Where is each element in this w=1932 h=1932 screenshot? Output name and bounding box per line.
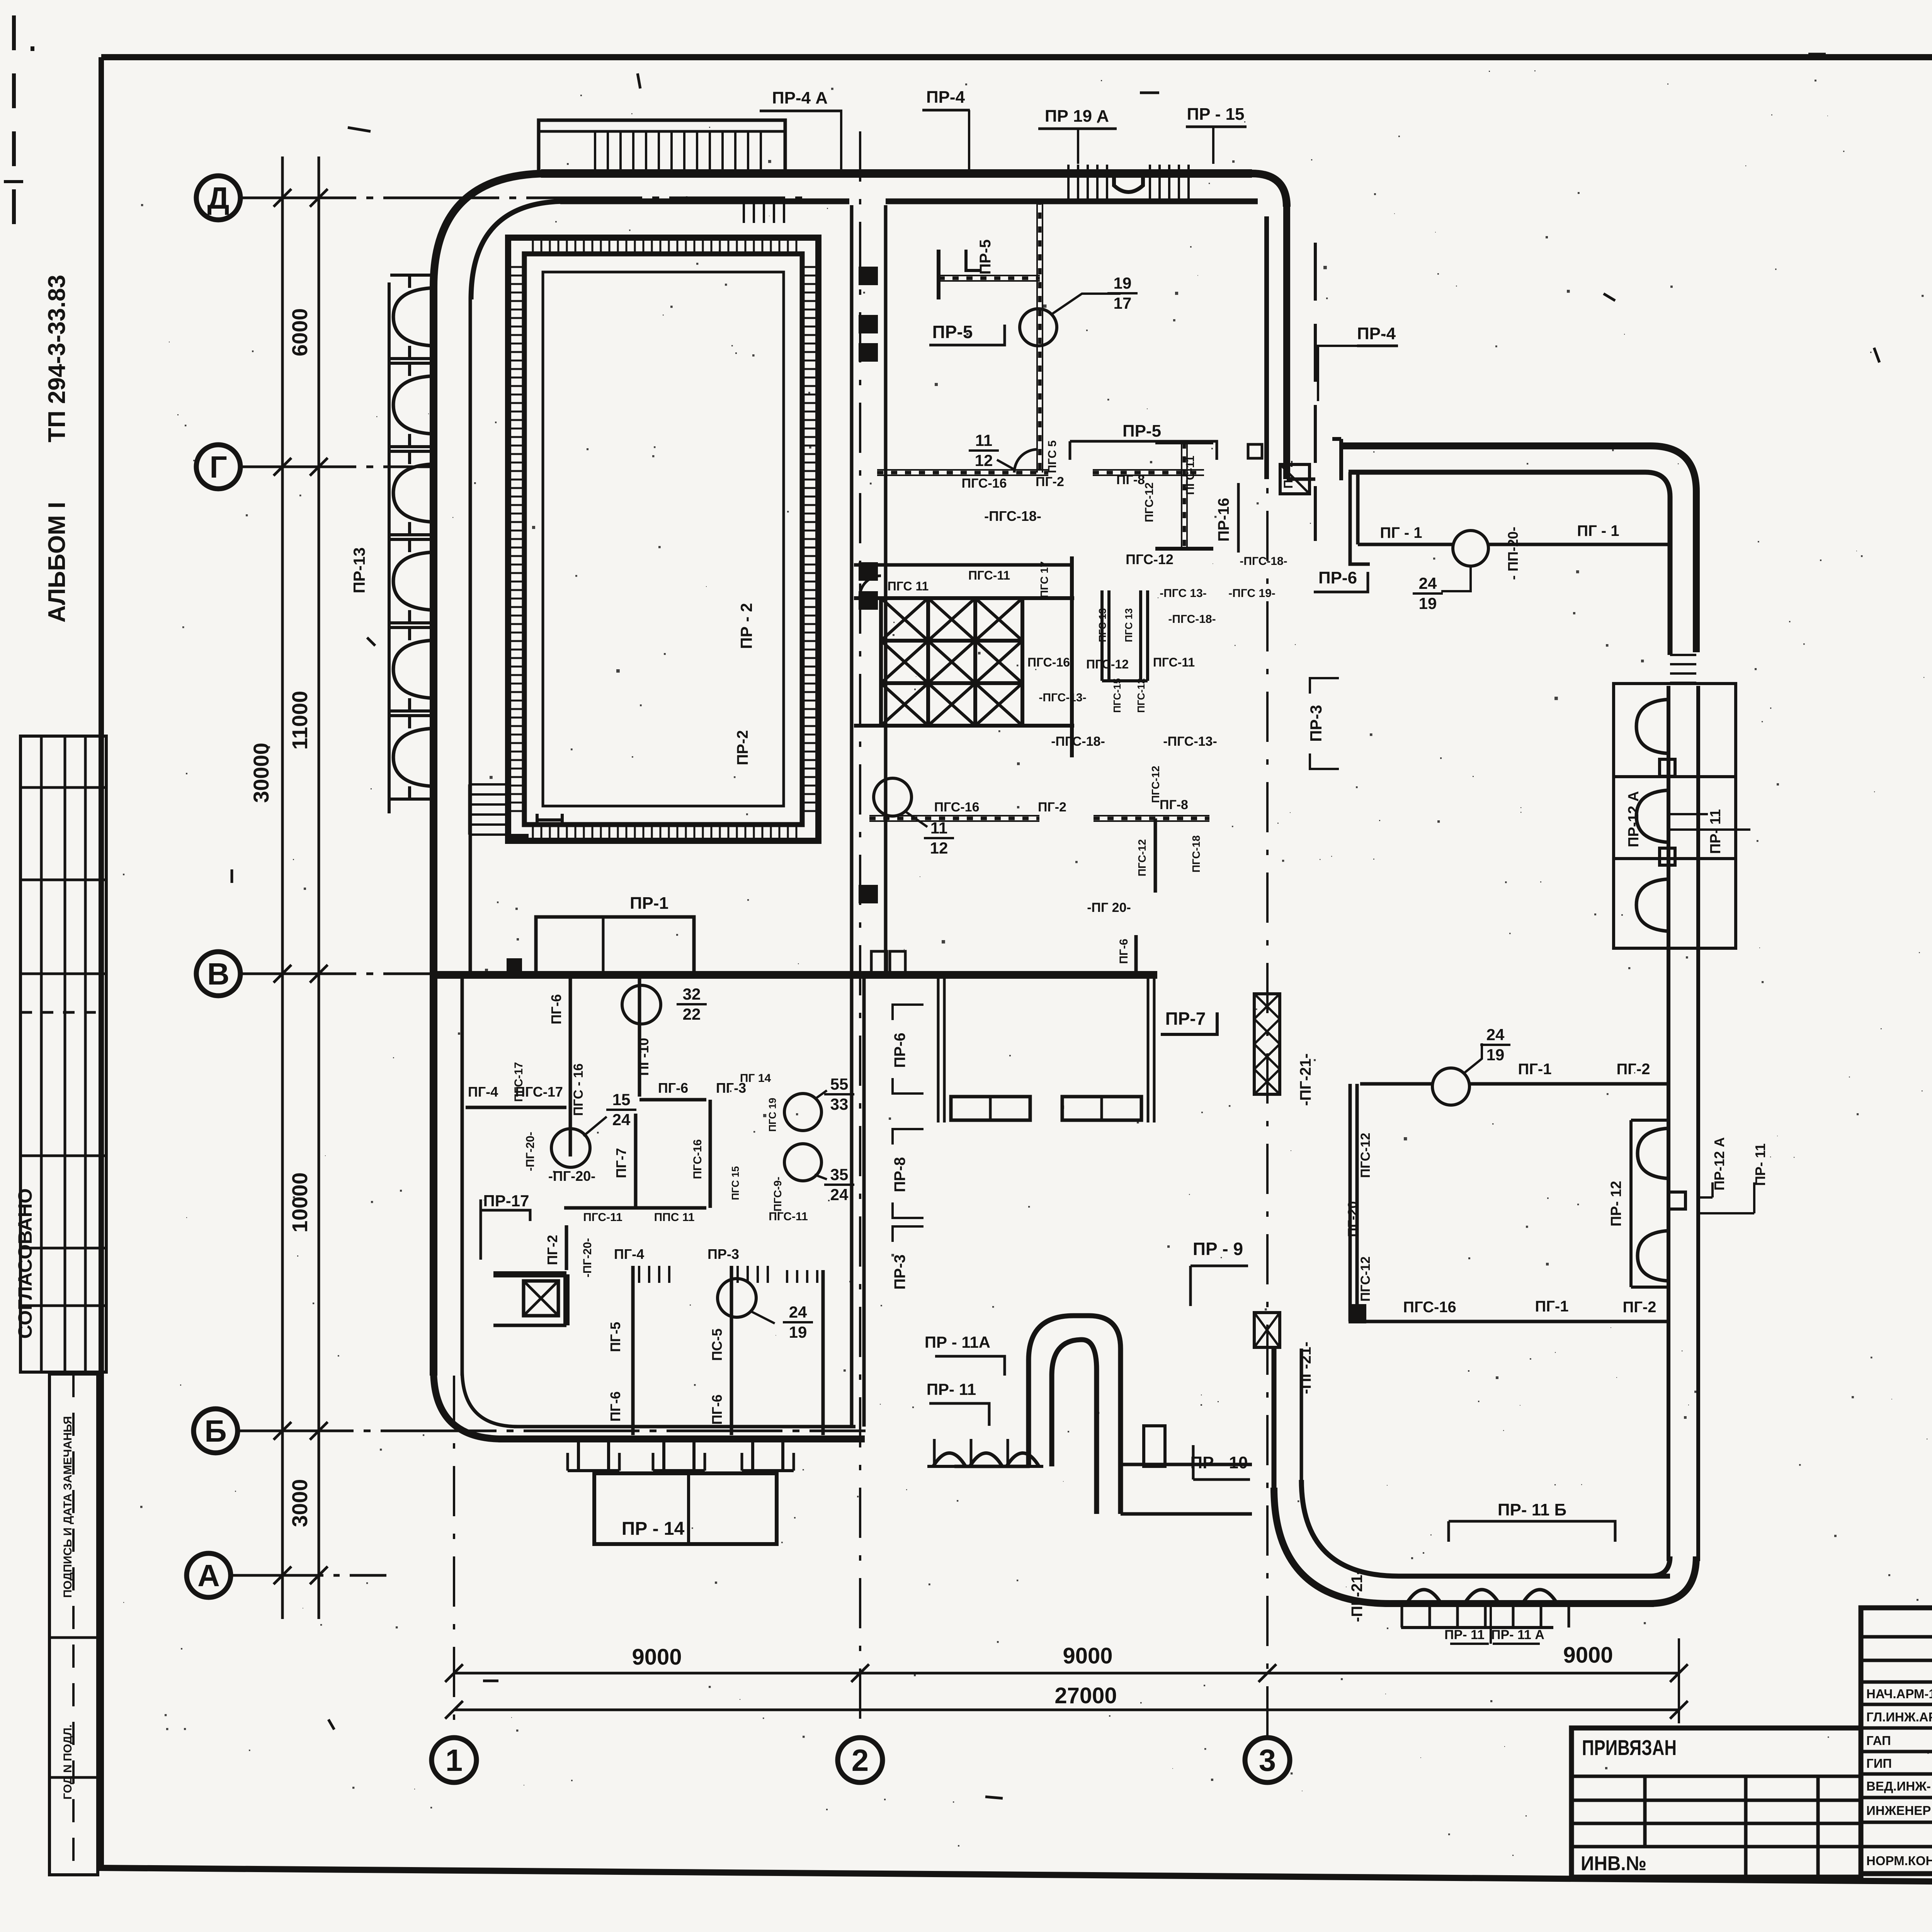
svg-text:ПГС-11: ПГС-11 (583, 1211, 622, 1224)
partition PG-1 upper with circle (1358, 543, 1453, 546)
svg-text:3: 3 (1259, 1743, 1276, 1777)
svg-text:НАЧ.АРМ-1: НАЧ.АРМ-1 (1866, 1687, 1932, 1701)
grid bubble axis Г (196, 445, 240, 489)
partition PG-1/PG-2 mid with circle (1360, 1082, 1434, 1086)
door swing arc (1014, 449, 1037, 473)
svg-text:ПГ-10: ПГ-10 (636, 1038, 651, 1076)
svg-text:ПР- 11: ПР- 11 (1708, 809, 1724, 854)
svg-text:ПР-6: ПР-6 (1318, 568, 1357, 587)
ramp duct outer (1029, 1316, 1121, 1514)
axis line B (238, 1430, 866, 1432)
svg-text:ПГС 17: ПГС 17 (1038, 561, 1050, 598)
svg-text:ПР-4 А: ПР-4 А (772, 88, 828, 107)
svg-text:ПГС-11: ПГС-11 (1153, 655, 1195, 669)
svg-text:ПГ - 1: ПГ - 1 (1577, 522, 1619, 539)
svg-text:6000: 6000 (287, 308, 312, 357)
svg-text:ПГС 13: ПГС 13 (1097, 608, 1108, 642)
partition horizontal PG-6/PG-3 (639, 1098, 706, 1102)
grid bubble axis В (196, 952, 240, 996)
svg-text:ПР 19 А: ПР 19 А (1045, 107, 1109, 126)
left paper edge dashes (12, 15, 16, 247)
niche scallop 4 (1638, 1231, 1668, 1281)
svg-text:30000: 30000 (249, 743, 273, 803)
partition PGS-16 vertical lower (709, 1100, 712, 1208)
svg-text:ПГС 13: ПГС 13 (1123, 608, 1134, 642)
partition y2118 (869, 815, 1039, 816)
svg-text:ПР- 11: ПР- 11 (1444, 1628, 1485, 1642)
PR-14 porch box (594, 1473, 777, 1544)
svg-text:22: 22 (683, 1005, 701, 1023)
svg-text:ПГС-12: ПГС-12 (1086, 657, 1129, 671)
bottom-left outer corner arc (434, 1370, 502, 1439)
svg-text:НОРМ.КОНТР: НОРМ.КОНТР (1866, 1854, 1932, 1868)
svg-text:-ПГС-18-: -ПГС-18- (984, 508, 1041, 524)
partition horizontal y1223 left (877, 469, 1048, 471)
marker circle PG-20 (551, 1129, 590, 1167)
leader 15/24 (583, 1117, 607, 1136)
crosshatched pier lower (1254, 1313, 1280, 1347)
svg-text:ПГ-4: ПГ-4 (468, 1084, 498, 1100)
svg-text:11000: 11000 (287, 691, 312, 750)
svg-text:ПР- 11: ПР- 11 (927, 1380, 976, 1398)
svg-text:ПГС-16: ПГС-16 (1027, 655, 1070, 669)
svg-text:ПРИВЯЗАН: ПРИВЯЗАН (1582, 1735, 1677, 1760)
PR-5 bracket over partition (1070, 441, 1217, 460)
corridor left wall of right building (1272, 1349, 1277, 1492)
outer wall left (west facade) (430, 287, 437, 1376)
axis line V (240, 973, 1157, 975)
sheet frame bottom border (99, 1868, 1932, 1887)
svg-text:9000: 9000 (1563, 1643, 1613, 1668)
right building left wall upper (1349, 472, 1352, 544)
bottom-left big corner inner (1301, 1480, 1399, 1576)
third comb (786, 1270, 788, 1283)
svg-text:19: 19 (1114, 274, 1132, 292)
svg-text:12: 12 (975, 451, 993, 469)
PR-1 porch box above V wall (536, 917, 694, 975)
partition PG-2 (565, 1225, 568, 1270)
svg-text:ПГ-6: ПГ-6 (658, 1080, 688, 1096)
axis line G (240, 466, 436, 468)
svg-text:1: 1 (446, 1743, 463, 1777)
pool hall east wall (850, 205, 854, 1427)
svg-text:ПР-5: ПР-5 (932, 322, 973, 342)
small stair comb at pool SW corner (469, 783, 509, 786)
svg-text:ПГС-15: ПГС-15 (1111, 678, 1123, 713)
niche block upper (PR-12A / PR-11) (1614, 684, 1736, 948)
svg-text:ПГ-8: ПГ-8 (1116, 473, 1145, 487)
svg-text:ПР-5: ПР-5 (977, 240, 994, 275)
grid bubble axis 2 (859, 131, 861, 1737)
PR-17 bracket (481, 1210, 530, 1221)
svg-text:12: 12 (930, 839, 948, 857)
svg-text:ПР-16: ПР-16 (1215, 498, 1232, 541)
niche scallop 2 (1636, 790, 1668, 842)
half door arc at shaft (860, 576, 881, 597)
marker circle corridor (874, 778, 912, 816)
svg-text:ПГ-5: ПГ-5 (607, 1322, 623, 1352)
svg-text:ПГ-8: ПГ-8 (1160, 798, 1188, 812)
partition horizontal y3126 (564, 1206, 706, 1210)
svg-text:ПГ-2: ПГ-2 (1036, 474, 1064, 489)
svg-text:ПР-3: ПР-3 (891, 1255, 908, 1290)
svg-text:ПГС 5: ПГС 5 (1046, 440, 1059, 473)
front block right outer wall (1283, 205, 1290, 479)
svg-text:24: 24 (612, 1111, 631, 1129)
svg-text:ПГС-12: ПГС-12 (1358, 1133, 1373, 1178)
right building top wall inner (1349, 472, 1670, 655)
svg-text:-ПГС-18-: -ПГС-18- (1168, 613, 1216, 626)
PR-11B porch bottom (1449, 1521, 1615, 1542)
svg-text:ПГ-2: ПГ-2 (1617, 1061, 1650, 1078)
svg-text:ГИП: ГИП (1866, 1756, 1892, 1770)
bottom dimension line 9000 bays (454, 1672, 1679, 1675)
svg-text:А: А (197, 1558, 220, 1593)
T partition right (1181, 442, 1182, 549)
pool outer wall (508, 238, 818, 841)
partition PGS-16 / PG-1 / PG-2 lower (1357, 1320, 1668, 1323)
lower partitions with door combs (631, 1266, 635, 1435)
partition horizontal upper (PR-5 room) (939, 275, 1040, 276)
svg-text:ПГС-12: ПГС-12 (1143, 482, 1156, 522)
wall through niche block (1667, 686, 1670, 951)
svg-text:ПС-5: ПС-5 (709, 1328, 725, 1361)
svg-text:-ПГС-18-: -ПГС-18- (1240, 555, 1287, 568)
svg-text:ПР-2: ПР-2 (734, 730, 751, 765)
svg-text:ПГС 19: ПГС 19 (767, 1098, 778, 1132)
svg-text:ПР-1: ПР-1 (630, 894, 668, 913)
right building top wall outer (1341, 446, 1696, 652)
bench 1 (951, 1097, 1030, 1120)
partition PG-6 vertical (569, 979, 572, 1156)
svg-text:ПГС-16: ПГС-16 (691, 1139, 704, 1179)
marker circles 55/33 etc (784, 1094, 821, 1131)
pool wall hatch ticks right (802, 266, 818, 268)
scan smudge dashes (348, 128, 371, 131)
pool basin edge (543, 272, 784, 806)
svg-text:ПГ-1: ПГ-1 (1518, 1061, 1552, 1078)
svg-text:ПГ-20: ПГ-20 (1345, 1201, 1360, 1237)
niche block lower (PR-12) (1629, 1120, 1633, 1287)
right wall middle section (1667, 951, 1670, 1121)
pool wall hatch ticks left (509, 266, 525, 268)
svg-text:ПР-8: ПР-8 (891, 1157, 908, 1192)
entrance vestibule curved recess (1114, 175, 1143, 192)
inner thick line of top wall (560, 199, 849, 204)
svg-text:24: 24 (830, 1185, 849, 1204)
porch scallops bottom right building (1406, 1590, 1441, 1604)
ramp lower outline (1121, 1512, 1252, 1516)
small vents right (1248, 444, 1262, 458)
crosshatched pier upper (1254, 994, 1280, 1094)
svg-text:ПГ-2: ПГ-2 (544, 1235, 560, 1265)
partition brick vertical (hatched) (1036, 199, 1038, 473)
svg-text:-ПГ-20-: -ПГ-20- (548, 1168, 595, 1184)
svg-text:ПГС-16: ПГС-16 (934, 800, 980, 815)
svg-text:ГОД N ПОДЛ.: ГОД N ПОДЛ. (61, 1725, 74, 1800)
svg-text:АЛЬБОМ I: АЛЬБОМ I (44, 502, 70, 622)
svg-text:В: В (207, 957, 230, 991)
pool corner step detail (510, 834, 529, 842)
porch stubs on V wall (871, 951, 887, 974)
svg-text:-ПГ-21-: -ПГ-21- (1297, 1053, 1314, 1106)
window niche strip boundary line (388, 282, 391, 813)
marker circle on partition (1020, 309, 1057, 346)
svg-text:9000: 9000 (632, 1645, 682, 1670)
svg-text:ПОДПИСЬ И ДАТА ЗАМЕЧАНЬЯ: ПОДПИСЬ И ДАТА ЗАМЕЧАНЬЯ (61, 1416, 74, 1598)
svg-text:24: 24 (1419, 574, 1437, 592)
PGS-13 partition pairs (1100, 590, 1104, 681)
dimension chain outer line 30000 (281, 156, 284, 1619)
pool inner wall (524, 254, 802, 825)
svg-text:-ПГС-13-: -ПГС-13- (1163, 734, 1217, 749)
svg-text:ПР-3: ПР-3 (1307, 705, 1325, 742)
window niches (scalloped piers) on west wall (393, 288, 434, 346)
dim vert at right end (1678, 1638, 1680, 1723)
link piece front block to right building (1287, 478, 1315, 481)
right wall entrance combs (1670, 654, 1696, 656)
svg-text:ПР- 12: ПР- 12 (1608, 1181, 1624, 1226)
grid bubble axis Б (194, 1409, 238, 1453)
svg-text:17: 17 (1114, 294, 1132, 312)
svg-text:ПГС-12: ПГС-12 (1126, 551, 1173, 567)
bottom-left margin strip (49, 1374, 98, 1875)
svg-text:-ПГС-9-: -ПГС-9- (772, 1177, 784, 1215)
svg-text:ПГС 11: ПГС 11 (888, 579, 929, 593)
svg-text:ПГС 15: ПГС 15 (730, 1166, 741, 1200)
svg-text:ПР - 10: ПР - 10 (1190, 1453, 1248, 1472)
svg-text:ППС 11: ППС 11 (654, 1211, 695, 1224)
svg-text:-ПГ-21-: -ПГ-21- (1349, 1570, 1366, 1622)
svg-text:3000: 3000 (287, 1479, 312, 1527)
partitions around shaft block (854, 596, 1074, 600)
svg-text:ПР-6: ПР-6 (891, 1033, 908, 1068)
svg-text:ПГ 14: ПГ 14 (740, 1072, 771, 1085)
svg-text:ПГС-16: ПГС-16 (1403, 1299, 1456, 1316)
top staircase landing line (539, 130, 785, 133)
partition horizontal y1223 right (1093, 469, 1204, 471)
svg-text:-ПГ 20-: -ПГ 20- (1087, 900, 1131, 915)
bottom dimension line 27000 (454, 1709, 1679, 1711)
svg-text:2: 2 (852, 1743, 869, 1777)
svg-text:-ПГ-20-: -ПГ-20- (524, 1132, 537, 1171)
svg-text:24: 24 (789, 1303, 807, 1321)
lift shaft (493, 1271, 566, 1277)
ramp duct inner (1052, 1340, 1097, 1514)
svg-text:- ПП-20-: - ПП-20- (1505, 527, 1521, 580)
svg-text:27000: 27000 (1054, 1683, 1117, 1708)
svg-text:10000: 10000 (287, 1172, 312, 1233)
svg-text:ПР-13: ПР-13 (350, 548, 368, 594)
inner line of left wall (469, 298, 472, 975)
svg-text:ПГС-12: ПГС-12 (1135, 678, 1147, 713)
left jog of top wall (1332, 439, 1341, 480)
benches room walls (937, 975, 940, 1122)
sheet frame top border (101, 54, 1932, 60)
svg-text:ПР-5: ПР-5 (1122, 422, 1161, 440)
partition PG-7 (634, 1114, 638, 1208)
partition y1462 (854, 563, 1070, 567)
svg-text:-ПГС 19-: -ПГС 19- (1228, 587, 1276, 600)
svg-text:ПР- 11 А: ПР- 11 А (1491, 1628, 1544, 1642)
grid bubble axis 1 (453, 1376, 455, 1737)
svg-text:ПР-3: ПР-3 (707, 1246, 739, 1262)
corridor east wall lower (862, 975, 866, 1427)
pool gutter step (537, 818, 562, 821)
svg-text:33: 33 (830, 1095, 849, 1113)
niche scallop 3 (1638, 1128, 1668, 1179)
svg-text:15: 15 (612, 1090, 631, 1109)
svg-text:-ПГС 13-: -ПГС 13- (1160, 587, 1207, 600)
svg-text:СОГЛАСОВАНО: СОГЛАСОВАНО (14, 1188, 36, 1338)
svg-text:55: 55 (830, 1075, 849, 1093)
svg-text:ПР-7: ПР-7 (1165, 1009, 1206, 1029)
small partitions below y2118 (1154, 818, 1157, 893)
entrance stair comb right (1149, 165, 1151, 199)
wall piers (hatched) (859, 267, 878, 285)
svg-text:19: 19 (1486, 1046, 1505, 1064)
ventilation shaft block with X bracing (881, 598, 928, 641)
svg-text:ПР - 11А: ПР - 11А (925, 1333, 990, 1351)
svg-text:ПР - 15: ПР - 15 (1187, 105, 1244, 124)
svg-text:ПГС-18: ПГС-18 (1190, 835, 1202, 872)
PG-6 partition (1134, 935, 1138, 975)
svg-text:ПР - 14: ПР - 14 (622, 1519, 685, 1539)
svg-text:ИНВ.№: ИНВ.№ (1581, 1852, 1646, 1875)
svg-text:ПГ-6: ПГ-6 (548, 994, 564, 1024)
svg-text:ПГС-17: ПГС-17 (512, 1062, 525, 1102)
svg-text:Б: Б (204, 1414, 227, 1448)
svg-text:ПГС-16: ПГС-16 (962, 476, 1007, 491)
lower-left inner wall line (461, 975, 464, 1376)
svg-text:Г: Г (209, 450, 227, 484)
svg-text:ПР-4: ПР-4 (926, 88, 965, 107)
right building bottom corner outer (1649, 1556, 1696, 1604)
svg-text:ПГ-7: ПГ-7 (613, 1148, 629, 1178)
PR-16 bracket (1237, 483, 1240, 553)
axis line A (231, 1574, 386, 1577)
svg-text:ГАП: ГАП (1866, 1733, 1891, 1748)
leader 19/17 (1052, 294, 1121, 314)
svg-text:ПГС-11: ПГС-11 (968, 568, 1010, 582)
svg-text:ПГС-12: ПГС-12 (1136, 839, 1148, 876)
svg-text:ПГ-2: ПГ-2 (1038, 800, 1066, 815)
svg-text:ПР-12 А: ПР-12 А (1711, 1137, 1727, 1190)
outer wall top (north facade) (541, 169, 1252, 178)
svg-text:ПР-4: ПР-4 (1357, 324, 1396, 343)
svg-text:-ПГ-20-: -ПГ-20- (581, 1238, 594, 1277)
svg-text:ПР - 9: ПР - 9 (1193, 1239, 1243, 1259)
svg-text:32: 32 (683, 985, 701, 1003)
svg-text:ПГ-1: ПГ-1 (1535, 1298, 1569, 1315)
axis line D (240, 197, 811, 199)
soglasovano margin table (20, 736, 106, 1372)
svg-text:ГЛ.ИНЖ.АРМ: ГЛ.ИНЖ.АРМ (1866, 1710, 1932, 1724)
bench 2 (1062, 1097, 1141, 1120)
svg-text:ПГС-11: ПГС-11 (1184, 456, 1197, 495)
grid bubble axis Д (196, 176, 240, 220)
svg-text:ПР- 11: ПР- 11 (1752, 1143, 1768, 1186)
grid bubble axis А (187, 1553, 231, 1597)
svg-text:ПГ-6: ПГ-6 (709, 1395, 725, 1425)
svg-text:ПГ-4: ПГ-4 (614, 1246, 644, 1262)
hatched pier bottom of room block (1349, 1304, 1366, 1323)
svg-text:-ПГС-18-: -ПГС-18- (1051, 734, 1105, 749)
front block right inner wall (1264, 216, 1269, 479)
niche scallop 3 (1636, 879, 1668, 931)
sheet frame left border (99, 57, 104, 1869)
svg-text:ПГ-6: ПГ-6 (1117, 939, 1130, 964)
top staircase outline (539, 120, 785, 175)
bottom outer wall of lower block (498, 1435, 865, 1442)
svg-text:ПР-12 А: ПР-12 А (1626, 791, 1642, 847)
right building bottom wall outer (1389, 1600, 1654, 1607)
pool wall hatch ticks top (532, 238, 534, 254)
svg-text:9000: 9000 (1063, 1643, 1112, 1668)
outer wall top-left corner arc (434, 173, 549, 287)
signature table (1861, 1608, 1932, 1874)
partition PG-10 vertical (638, 975, 641, 1097)
svg-text:-ПГС-13-: -ПГС-13- (1039, 691, 1086, 704)
svg-text:19: 19 (789, 1323, 807, 1341)
svg-text:ТП 294-3-33.83: ТП 294-3-33.83 (44, 275, 70, 442)
svg-text:ПР-17: ПР-17 (483, 1192, 529, 1210)
ramp small box (1144, 1426, 1165, 1466)
wall through lower niche block (1667, 1121, 1670, 1561)
privyazan table (1571, 1728, 1861, 1877)
svg-text:ПГС-12: ПГС-12 (1358, 1257, 1373, 1302)
svg-text:ПГ-6: ПГ-6 (607, 1391, 623, 1422)
marker circle 32/22 (622, 985, 661, 1024)
bottom inner wall line of lower block (462, 1370, 518, 1427)
porch scallops centre bottom (933, 1453, 966, 1467)
bottom-left big corner outer (1274, 1488, 1389, 1604)
svg-text:ВЕД.ИНЖ-: ВЕД.ИНЖ- (1866, 1779, 1931, 1793)
niche scallop 1 (1636, 699, 1668, 753)
dimension chain inner line (318, 156, 320, 1619)
small comb below wall (743, 204, 745, 223)
pool wall hatch ticks bottom (532, 825, 534, 841)
corridor wall between blocks (dashed) (1314, 243, 1317, 541)
room block left walls (1349, 1084, 1352, 1321)
top staircase comb (594, 131, 596, 175)
svg-text:ПР - 2: ПР - 2 (737, 603, 755, 649)
entrance stair comb left (1067, 165, 1070, 199)
right building bottom wall inner (1399, 1574, 1670, 1579)
svg-text:ПГ-2: ПГ-2 (1623, 1299, 1656, 1316)
svg-text:11: 11 (975, 431, 992, 449)
svg-text:ПГС - 16: ПГС - 16 (571, 1063, 586, 1116)
outer wall top-right corner arc (1252, 173, 1287, 207)
L corner below left wall (1350, 544, 1370, 564)
niche teeth middle (1660, 759, 1675, 776)
leader (997, 460, 1014, 469)
svg-text:35: 35 (830, 1165, 849, 1184)
svg-text:Д: Д (207, 181, 230, 215)
svg-text:19: 19 (1419, 594, 1437, 612)
svg-text:ИНЖЕНЕР: ИНЖЕНЕР (1866, 1803, 1931, 1818)
door stoops on bottom wall (577, 1442, 580, 1471)
svg-text:ПР- 11 Б: ПР- 11 Б (1498, 1500, 1566, 1519)
svg-text:ПГ - 1: ПГ - 1 (1380, 524, 1422, 541)
niche teeth lower (1668, 1192, 1685, 1209)
small jog on partition (966, 250, 981, 270)
V axis wall (436, 971, 1157, 979)
grid bubble axis 3 (1266, 240, 1269, 1737)
svg-text:24: 24 (1486, 1026, 1505, 1044)
partition horizontal y2866 (466, 1106, 566, 1109)
